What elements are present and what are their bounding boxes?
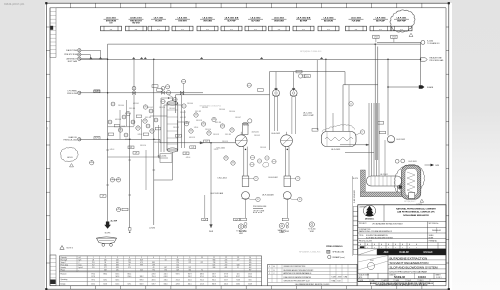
svg-text:626: 626 <box>176 267 179 269</box>
svg-text:DAELIM: DAELIM <box>399 251 408 254</box>
svg-text:979.8: 979.8 <box>140 279 144 281</box>
svg-text:ISSUED FOR CONSTRUCTION: ISSUED FOR CONSTRUCTION <box>284 266 306 268</box>
svg-text:507.1: 507.1 <box>128 284 132 286</box>
svg-text:467: 467 <box>164 267 167 269</box>
svg-text:829: 829 <box>140 260 143 262</box>
svg-text:LE-T-1051: LE-T-1051 <box>380 174 388 176</box>
svg-text:482: 482 <box>249 267 252 269</box>
svg-text:2-PL-142: 2-PL-142 <box>147 107 153 109</box>
svg-text:68.0: 68.0 <box>249 279 252 281</box>
svg-text:2-PL-151: 2-PL-151 <box>154 142 160 144</box>
svg-text:623.5: 623.5 <box>115 279 119 281</box>
svg-text:3-PL-120: 3-PL-120 <box>145 117 151 119</box>
svg-text:105.3: 105.3 <box>224 276 228 278</box>
svg-text:397: 397 <box>249 265 252 267</box>
svg-text:121.3: 121.3 <box>200 284 204 286</box>
svg-text:473: 473 <box>140 262 143 264</box>
svg-text:1.0M: 1.0M <box>302 77 306 79</box>
svg-text:b9649-p6017-p01: b9649-p6017-p01 <box>4 2 25 6</box>
svg-text:xx: xx <box>112 179 114 181</box>
svg-text:kg/h: kg/h <box>79 260 82 262</box>
svg-text:4-PL-121: 4-PL-121 <box>180 117 186 119</box>
svg-text:x-x: x-x <box>327 29 329 31</box>
svg-text:xx: xx <box>118 208 120 210</box>
svg-text:xx: xx <box>213 118 215 120</box>
svg-text:LAB PETROCHEMICAL COMPLEX JPC: LAB PETROCHEMICAL COMPLEX JPC <box>397 211 435 214</box>
svg-text:12.6: 12.6 <box>237 274 240 276</box>
svg-text:x-x: x-x <box>157 29 159 31</box>
svg-text:892.8: 892.8 <box>212 284 216 286</box>
svg-text:NP2(M)SH-T-3364-F01: NP2(M)SH-T-3364-F01 <box>299 252 321 254</box>
svg-text:1-P: 1-P <box>192 147 194 149</box>
svg-text:NON-HUMAN SIMULATOR: NON-HUMAN SIMULATOR <box>403 214 429 217</box>
svg-text:420.0: 420.0 <box>224 284 228 286</box>
svg-text:51: 51 <box>237 267 239 269</box>
svg-text:366: 366 <box>176 260 179 262</box>
svg-text:UTILITY/PROCESS FLOW DIAGRAM: UTILITY/PROCESS FLOW DIAGRAM <box>390 271 427 274</box>
svg-text:2-PL-149: 2-PL-149 <box>125 139 131 141</box>
svg-text:656.0: 656.0 <box>164 284 168 286</box>
svg-text:908: 908 <box>213 267 216 269</box>
svg-text:x-x: x-x <box>110 29 112 31</box>
svg-text:PMC: PMC <box>370 260 375 262</box>
svg-text:101/10: 101/10 <box>418 275 426 279</box>
svg-text:N ACETONE: N ACETONE <box>66 49 78 52</box>
svg-text:SLOPS: SLOPS <box>105 232 112 234</box>
svg-text:253.4: 253.4 <box>176 279 180 281</box>
svg-text:GS E&C: GS E&C <box>423 251 432 254</box>
svg-text:559.7: 559.7 <box>212 274 216 276</box>
svg-text:227: 227 <box>237 260 240 262</box>
svg-text:49: 49 <box>153 267 155 269</box>
svg-text:xx: xx <box>195 114 197 116</box>
svg-text:m3: m3 <box>79 257 81 259</box>
svg-text:K.LEE: K.LEE <box>332 277 336 279</box>
svg-text:1-PL-4: 1-PL-4 <box>194 127 199 129</box>
svg-text:6-PL-148: 6-PL-148 <box>115 119 121 121</box>
svg-text:FLR DRM: FLR DRM <box>352 20 361 22</box>
svg-text:761: 761 <box>92 267 95 269</box>
svg-text:x-x: x-x <box>135 29 137 31</box>
svg-text:x-x: x-x <box>230 29 232 31</box>
svg-text:166.5: 166.5 <box>115 274 119 276</box>
svg-text:28: 28 <box>92 260 94 262</box>
svg-text:550.9: 550.9 <box>140 284 144 286</box>
svg-text:LE-E-1052: LE-E-1052 <box>271 133 280 135</box>
svg-text:997: 997 <box>249 270 252 272</box>
svg-text:315.8: 315.8 <box>103 284 107 286</box>
svg-text:14: 14 <box>249 257 251 259</box>
svg-text:NOTE 3: NOTE 3 <box>67 248 74 250</box>
svg-text:723.8: 723.8 <box>236 279 240 281</box>
svg-text:1-P: 1-P <box>130 147 132 149</box>
svg-text:455.2: 455.2 <box>91 284 95 286</box>
svg-text:NP2(M)SH-T-3364-F01: NP2(M)SH-T-3364-F01 <box>300 51 322 53</box>
svg-text:861.4: 861.4 <box>128 274 132 276</box>
svg-text:138.2: 138.2 <box>140 276 144 278</box>
svg-text:5/16/9-02: 5/16/9-02 <box>394 275 406 279</box>
svg-text:276: 276 <box>176 262 179 264</box>
svg-text:2: 2 <box>105 257 106 259</box>
svg-text:BLKT GAS: BLKT GAS <box>68 60 78 63</box>
svg-text:668: 668 <box>104 270 107 272</box>
svg-text:12: 12 <box>225 257 227 259</box>
svg-text:441: 441 <box>225 267 228 269</box>
svg-text:488.0: 488.0 <box>200 274 204 276</box>
svg-text:kg/m3: kg/m3 <box>79 267 83 269</box>
svg-text:1-P: 1-P <box>185 153 187 155</box>
svg-text:968: 968 <box>213 260 216 262</box>
svg-text:784: 784 <box>128 262 131 264</box>
svg-text:x-x: x-x <box>302 29 304 31</box>
svg-text:LICENSED: LICENSED <box>359 207 367 209</box>
svg-text:765: 765 <box>225 262 228 264</box>
svg-text:PROCESS LINE: PROCESS LINE <box>253 206 267 208</box>
svg-text:204.1: 204.1 <box>188 279 192 281</box>
svg-text:435: 435 <box>104 260 107 262</box>
svg-text:232.0: 232.0 <box>248 274 252 276</box>
svg-text:166: 166 <box>249 260 252 262</box>
svg-text:CHECKED BY PROCESS DEPT 10-07: CHECKED BY PROCESS DEPT 10-07 <box>284 281 310 283</box>
svg-text:3-PL-158: 3-PL-158 <box>196 120 202 122</box>
svg-text:162: 162 <box>128 260 131 262</box>
svg-text:432: 432 <box>116 260 119 262</box>
svg-text:6-PL-3: 6-PL-3 <box>110 149 115 151</box>
svg-text:SPECIAL (1M): SPECIAL (1M) <box>333 251 345 254</box>
svg-text:435: 435 <box>116 270 119 272</box>
svg-text:885: 885 <box>152 262 155 264</box>
svg-text:573: 573 <box>188 267 191 269</box>
svg-text:11: 11 <box>213 257 215 259</box>
svg-text:1-PL-156: 1-PL-156 <box>159 107 165 109</box>
svg-text:BD PMP: BD PMP <box>300 20 308 22</box>
svg-text:xx: xx <box>137 127 139 129</box>
svg-text:2-PL-157: 2-PL-157 <box>180 112 186 114</box>
svg-text:40-E-1051: 40-E-1051 <box>252 131 260 133</box>
svg-text:937.0: 937.0 <box>176 274 180 276</box>
svg-text:AL-TNP: AL-TNP <box>111 219 118 222</box>
svg-text:2-PL-160: 2-PL-160 <box>229 111 235 113</box>
svg-text:PROJ No. 40-2075: PROJ No. 40-2075 <box>359 241 372 243</box>
svg-text:376: 376 <box>164 270 167 272</box>
svg-text:RW STM: RW STM <box>132 22 140 24</box>
svg-text:2-PL-155: 2-PL-155 <box>222 141 228 143</box>
svg-text:LE-P-1051 A/B: LE-P-1051 A/B <box>210 192 223 195</box>
svg-text:2-PL-140: 2-PL-140 <box>118 105 124 107</box>
svg-text:x-x: x-x <box>379 29 381 31</box>
svg-text:674: 674 <box>213 265 216 267</box>
svg-text:6: 6 <box>153 257 154 259</box>
svg-text:Temp C: Temp C <box>61 262 67 264</box>
svg-text:xx: xx <box>203 123 205 125</box>
svg-text:xx: xx <box>186 122 188 124</box>
svg-text:STM HTR: STM HTR <box>178 20 187 22</box>
svg-text:1-P: 1-P <box>135 153 137 155</box>
svg-text:8-PL-2: 8-PL-2 <box>138 134 143 136</box>
svg-text:xx: xx <box>231 129 233 131</box>
svg-text:BD DRUM: BD DRUM <box>324 20 333 22</box>
svg-text:x-x: x-x <box>254 29 256 31</box>
svg-text:BUTADIENE EXTRACTION: BUTADIENE EXTRACTION <box>390 256 428 260</box>
svg-text:549: 549 <box>176 270 179 272</box>
svg-text:VNT DRM: VNT DRM <box>203 20 212 22</box>
svg-text:237: 237 <box>201 262 204 264</box>
svg-text:L-75090: L-75090 <box>149 227 155 229</box>
svg-text:x-x: x-x <box>206 29 208 31</box>
svg-text:577: 577 <box>104 267 107 269</box>
svg-text:NP2(M)SH-T-3364-F01: NP2(M)SH-T-3364-F01 <box>200 105 222 107</box>
svg-text:NONE: NONE <box>429 237 434 239</box>
svg-text:757: 757 <box>92 265 95 267</box>
svg-text:LE-T-1051: LE-T-1051 <box>217 147 225 149</box>
svg-text:127.8: 127.8 <box>91 276 95 278</box>
svg-text:529.1: 529.1 <box>103 279 107 281</box>
svg-text:738: 738 <box>213 262 216 264</box>
svg-text:828: 828 <box>116 267 119 269</box>
svg-text:TK VRT: TK VRT <box>155 20 163 22</box>
svg-text:LE-D-1052: LE-D-1052 <box>218 178 227 180</box>
svg-text:8-P2: 8-P2 <box>95 138 99 140</box>
svg-text:DRAIN: DRAIN <box>279 231 285 234</box>
svg-text:xx: xx <box>144 120 146 122</box>
svg-text:274: 274 <box>225 260 228 262</box>
svg-text:LPG BUTADIENE EXTRACTION PLANT: LPG BUTADIENE EXTRACTION PLANT <box>372 222 403 225</box>
svg-text:226.8: 226.8 <box>152 274 156 276</box>
svg-text:SLP DRM: SLP DRM <box>251 20 260 22</box>
svg-text:2-PL-146: 2-PL-146 <box>219 109 225 111</box>
svg-text:xx: xx <box>232 162 234 164</box>
svg-text:13: 13 <box>237 257 239 259</box>
svg-text:2-PL-152: 2-PL-152 <box>173 127 179 129</box>
svg-text:70: 70 <box>201 270 203 272</box>
svg-text:1-P: 1-P <box>96 91 98 93</box>
svg-text:PIPING SYMBOLS: PIPING SYMBOLS <box>326 246 343 248</box>
svg-text:967.9: 967.9 <box>188 274 192 276</box>
svg-text:812.7: 812.7 <box>236 276 240 278</box>
svg-text:508.2: 508.2 <box>236 284 240 286</box>
svg-text:2-PL-131: 2-PL-131 <box>225 134 231 136</box>
svg-text:279: 279 <box>188 262 191 264</box>
svg-text:FRM U-200: FRM U-200 <box>67 93 77 95</box>
svg-text:SLOP AND BLOWDOWN SYSTEM: SLOP AND BLOWDOWN SYSTEM <box>366 237 393 240</box>
svg-text:794: 794 <box>152 270 155 272</box>
svg-text:2-PL-163: 2-PL-163 <box>260 147 266 149</box>
svg-text:755.5: 755.5 <box>200 279 204 281</box>
svg-text:1-PL-143: 1-PL-143 <box>169 108 175 110</box>
svg-text:253: 253 <box>92 262 95 264</box>
svg-text:SLOPS: SLOPS <box>353 178 358 180</box>
svg-text:2-PL-154: 2-PL-154 <box>205 129 211 131</box>
svg-text:508: 508 <box>237 265 240 267</box>
svg-text:xx: xx <box>225 157 227 159</box>
svg-text:xx: xx <box>118 179 120 181</box>
svg-text:240.1: 240.1 <box>164 274 168 276</box>
svg-text:507.7: 507.7 <box>224 279 228 281</box>
svg-text:565.0: 565.0 <box>248 276 252 278</box>
svg-text:Flow kg/h: Flow kg/h <box>61 260 68 262</box>
svg-text:LE-D-1062: LE-D-1062 <box>269 177 278 179</box>
svg-text:NATIONAL PETROCHEMICAL COMPANY: NATIONAL PETROCHEMICAL COMPANY <box>396 207 436 210</box>
svg-text:BD PUMP: BD PUMP <box>376 20 385 22</box>
svg-text:FLARE: FLARE <box>427 86 434 89</box>
svg-text:ASTM BLKT: ASTM BLKT <box>66 57 77 60</box>
svg-text:10: 10 <box>201 257 203 259</box>
svg-text:2-PL-159: 2-PL-159 <box>213 134 219 136</box>
svg-text:199: 199 <box>152 265 155 267</box>
svg-text:677.8: 677.8 <box>224 274 228 276</box>
svg-text:258.7: 258.7 <box>188 276 192 278</box>
svg-text:999: 999 <box>140 265 143 267</box>
svg-text:335: 335 <box>188 270 191 272</box>
svg-text:84: 84 <box>165 260 167 262</box>
svg-text:D60000-01: D60000-01 <box>432 230 441 232</box>
svg-text:3-PL-150: 3-PL-150 <box>140 145 146 147</box>
svg-text:671.1: 671.1 <box>200 276 204 278</box>
svg-text:VENT COMP: VENT COMP <box>303 115 314 117</box>
svg-text:xx: xx <box>151 130 153 132</box>
svg-text:893: 893 <box>116 265 119 267</box>
svg-text:TO FLARE KO: TO FLARE KO <box>427 42 440 45</box>
svg-text:LE-P-202 A/B: LE-P-202 A/B <box>262 194 274 197</box>
svg-text:256.9: 256.9 <box>128 276 132 278</box>
svg-text:2-PL-105: 2-PL-105 <box>129 108 135 110</box>
svg-text:JGC: JGC <box>384 251 389 254</box>
svg-text:702: 702 <box>176 265 179 267</box>
svg-text:PROJECT:: PROJECT: <box>359 223 367 225</box>
svg-text:612.8: 612.8 <box>164 276 168 278</box>
svg-text:NP2(M)SH-T: NP2(M)SH-T <box>404 201 416 203</box>
svg-text:WGR DRM: WGR DRM <box>274 20 284 22</box>
svg-text:4-PL-6: 4-PL-6 <box>186 157 191 159</box>
svg-text:8: 8 <box>177 257 178 259</box>
svg-text:435: 435 <box>249 262 252 264</box>
svg-text:S-40-1054-6IN: S-40-1054-6IN <box>354 190 356 203</box>
svg-text:1-P: 1-P <box>177 136 179 138</box>
svg-text:x-x: x-x <box>400 29 402 31</box>
svg-text:986.4: 986.4 <box>103 274 107 276</box>
svg-text:x-x: x-x <box>278 29 280 31</box>
svg-text:4: 4 <box>129 257 130 259</box>
svg-text:REVAMP (new): REVAMP (new) <box>333 256 346 259</box>
svg-text:797.5: 797.5 <box>91 279 95 281</box>
svg-text:Phase: Phase <box>61 269 66 271</box>
svg-text:LT: LT <box>362 132 364 134</box>
svg-text:}: } <box>47 126 48 130</box>
svg-text:520: 520 <box>104 265 107 267</box>
svg-text:716.3: 716.3 <box>152 276 156 278</box>
svg-text:606: 606 <box>116 262 119 264</box>
svg-text:97: 97 <box>129 265 131 267</box>
svg-text:975.0: 975.0 <box>91 274 95 276</box>
svg-text:2-PL-162: 2-PL-162 <box>254 135 260 137</box>
svg-text:PROCESS GAS: PROCESS GAS <box>430 59 445 62</box>
svg-text:562.8: 562.8 <box>115 276 119 278</box>
svg-text:1-PL-147: 1-PL-147 <box>235 117 241 119</box>
svg-text:PRE BTX RGE: PRE BTX RGE <box>64 54 77 56</box>
svg-text:xx: xx <box>208 132 210 134</box>
svg-text:524.8: 524.8 <box>248 284 252 286</box>
svg-text:1-P: 1-P <box>205 141 207 143</box>
svg-text:1-P: 1-P <box>235 219 237 221</box>
svg-text:x-x: x-x <box>355 29 357 31</box>
svg-text:124.5: 124.5 <box>115 284 119 286</box>
svg-text:xx: xx <box>222 125 224 127</box>
svg-text:FRM 40-E-1302: FRM 40-E-1302 <box>64 139 77 141</box>
svg-text:4-PL-153: 4-PL-153 <box>189 137 195 139</box>
svg-text:x-x: x-x <box>181 29 183 31</box>
svg-text:451.5: 451.5 <box>188 284 192 286</box>
svg-text:418.5: 418.5 <box>152 279 156 281</box>
svg-text:SMP PMP: SMP PMP <box>397 20 406 22</box>
svg-text:98: 98 <box>104 262 106 264</box>
svg-text:LE-D-1053: LE-D-1053 <box>331 149 340 151</box>
svg-text:229.8: 229.8 <box>176 284 180 286</box>
svg-text:303: 303 <box>140 270 143 272</box>
svg-text:235.0: 235.0 <box>164 279 168 281</box>
svg-text:Design: Design <box>61 284 66 286</box>
svg-text:LE-P-1052: LE-P-1052 <box>397 139 406 141</box>
svg-text:HOLD: HOLD <box>67 157 73 159</box>
svg-text:905.1: 905.1 <box>212 279 216 281</box>
svg-text:370: 370 <box>128 267 131 269</box>
svg-text:1-P: 1-P <box>102 196 104 198</box>
svg-text:xx: xx <box>127 112 129 114</box>
svg-text:272: 272 <box>225 265 228 267</box>
svg-text:SLP PMP: SLP PMP <box>227 20 236 22</box>
svg-text:1-P: 1-P <box>204 219 206 221</box>
svg-text:LE-P-1061: LE-P-1061 <box>409 161 417 163</box>
svg-text:NPC DWG No.: NPC DWG No. <box>429 223 440 225</box>
svg-text:539.7: 539.7 <box>152 284 156 286</box>
svg-text:2-PL-144: 2-PL-144 <box>187 103 193 105</box>
svg-text:170: 170 <box>188 260 191 262</box>
svg-text:B: B <box>274 270 275 272</box>
svg-text:197.4: 197.4 <box>212 276 216 278</box>
svg-text:TITLE:: TITLE: <box>359 235 364 237</box>
svg-text:xx: xx <box>190 130 192 132</box>
svg-text:6-PL-130: 6-PL-130 <box>215 122 221 124</box>
svg-text:UTILITY LINE: UTILITY LINE <box>253 211 265 213</box>
svg-text:2-PL-122: 2-PL-122 <box>195 111 201 113</box>
